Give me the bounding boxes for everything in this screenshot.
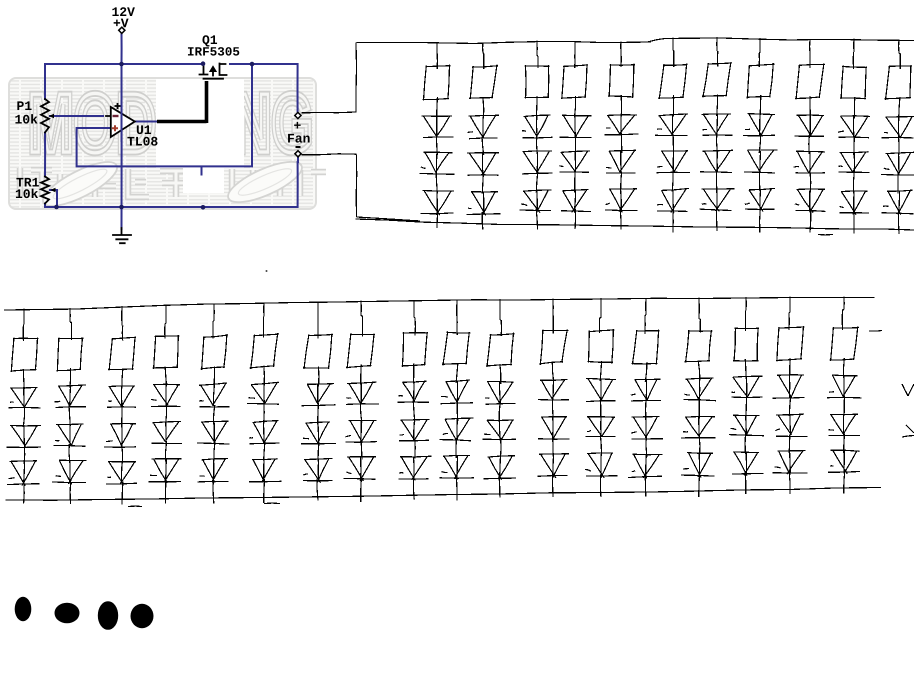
svg-text:MOD: MOD: [28, 76, 156, 170]
svg-text:NG: NG: [233, 76, 313, 170]
